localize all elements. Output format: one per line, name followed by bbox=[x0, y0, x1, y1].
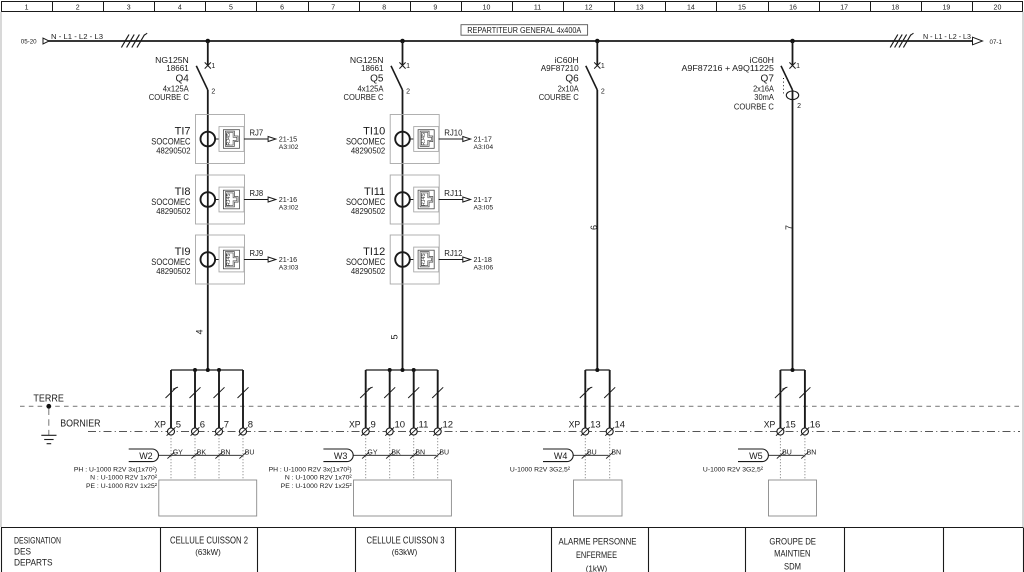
wire TI10 CT to connector bbox=[410, 138, 414, 140]
load label ALARME PERSONNE ENFERMEE bbox=[559, 537, 637, 572]
wire feeder Q5 to tie bbox=[402, 90, 404, 370]
load label CELLULE CUISSON 3 bbox=[367, 536, 445, 557]
wire drop to XP12 bbox=[432, 370, 443, 428]
cable W3 bbox=[323, 449, 436, 462]
wire number 5 bbox=[390, 334, 400, 339]
svg-text:XP: XP bbox=[569, 419, 581, 430]
wire drop to XP5 bbox=[166, 370, 179, 428]
net label N - L1 - L2 - L3 (right) bbox=[923, 34, 971, 41]
value labels Q5 bbox=[344, 55, 384, 102]
pin 1 of Q5 bbox=[406, 63, 410, 70]
svg-text:SDM: SDM bbox=[784, 561, 801, 572]
label RJ8 bbox=[250, 189, 264, 198]
svg-text:RJ9: RJ9 bbox=[250, 249, 264, 258]
svg-text:14: 14 bbox=[615, 419, 626, 430]
current transformer TI7 bbox=[196, 115, 245, 164]
svg-text:RJ45: RJ45 bbox=[421, 133, 427, 146]
svg-text:13: 13 bbox=[590, 419, 601, 430]
wire bus to Q7 pin 1 bbox=[792, 41, 794, 65]
svg-text:DEPARTS: DEPARTS bbox=[14, 557, 53, 567]
wire conductor BN below XP16 bbox=[801, 435, 816, 480]
svg-text:48290502: 48290502 bbox=[351, 206, 385, 216]
svg-text:1: 1 bbox=[25, 4, 29, 11]
svg-text:PE : U-1000 R2V 1x25²: PE : U-1000 R2V 1x25² bbox=[281, 483, 353, 490]
svg-text:1: 1 bbox=[406, 63, 410, 70]
ground bbox=[41, 404, 56, 444]
connector RJ12 (RJ45 jack) bbox=[414, 247, 439, 272]
load box W2 bbox=[159, 480, 257, 516]
wire main bus N-L1-L2-L3 bbox=[49, 40, 974, 42]
net label N - L1 - L2 - L3 (left) bbox=[51, 34, 103, 41]
svg-text:W4: W4 bbox=[554, 451, 568, 461]
wire drop to XP15 bbox=[775, 370, 788, 428]
label RJ9 bbox=[250, 249, 264, 258]
net BORNIER dash-dot line bbox=[60, 418, 1020, 431]
label XP C bbox=[569, 419, 581, 430]
svg-text:9: 9 bbox=[371, 419, 376, 430]
wire tie bar D bbox=[780, 369, 805, 371]
wire conductor BU below XP13 bbox=[582, 435, 597, 480]
svg-text:21-18: 21-18 bbox=[474, 255, 492, 264]
wire conductor BU below XP15 bbox=[777, 435, 792, 480]
svg-text:RJ45: RJ45 bbox=[226, 133, 232, 146]
wire drop to XP9 bbox=[360, 370, 373, 428]
pin 1 of Q7 bbox=[796, 63, 800, 70]
svg-text:9: 9 bbox=[433, 4, 437, 11]
terminal XP14 bbox=[605, 419, 625, 435]
wire TI11 CT to connector bbox=[410, 199, 414, 201]
value labels TI10 SOCOMEC 48290502 bbox=[346, 125, 386, 155]
svg-text:1: 1 bbox=[796, 63, 800, 70]
svg-text:18661: 18661 bbox=[166, 63, 189, 73]
node junction dots B bbox=[388, 368, 416, 372]
svg-text:48290502: 48290502 bbox=[351, 146, 385, 156]
node junction dots C bbox=[595, 368, 599, 372]
svg-text:W2: W2 bbox=[139, 451, 153, 461]
cable W2 bbox=[129, 449, 242, 462]
svg-text:RJ45: RJ45 bbox=[421, 194, 427, 207]
svg-text:11: 11 bbox=[534, 4, 541, 11]
svg-text:BU: BU bbox=[439, 449, 449, 456]
svg-text:RJ45: RJ45 bbox=[421, 254, 427, 267]
svg-text:12: 12 bbox=[443, 419, 454, 430]
svg-text:BU: BU bbox=[245, 449, 255, 456]
current transformer TI10 bbox=[390, 115, 439, 164]
terminal XP15 bbox=[776, 419, 796, 435]
connector RJ8 (RJ45 jack) bbox=[219, 187, 244, 212]
label REPARTITEUR GENERAL 4x400A bbox=[461, 25, 588, 36]
cable W4 bbox=[543, 449, 609, 462]
svg-text:COURBE C: COURBE C bbox=[344, 92, 384, 102]
breaker Q6 bbox=[586, 62, 601, 90]
terminal XP13 bbox=[581, 419, 601, 435]
svg-text:N : U-1000 R2V 1x70²: N : U-1000 R2V 1x70² bbox=[285, 475, 353, 482]
svg-text:7: 7 bbox=[331, 4, 335, 11]
svg-text:14: 14 bbox=[687, 4, 695, 11]
terminal XP9 bbox=[361, 419, 375, 435]
svg-text:RJ12: RJ12 bbox=[444, 249, 463, 258]
svg-text:CELLULE CUISSON 2: CELLULE CUISSON 2 bbox=[170, 536, 248, 547]
wire conductor BU below XP8 bbox=[239, 435, 254, 480]
svg-text:21-17: 21-17 bbox=[474, 195, 492, 204]
svg-text:4: 4 bbox=[178, 4, 182, 11]
svg-text:N - L1 - L2 - L3: N - L1 - L2 - L3 bbox=[51, 34, 103, 41]
svg-text:21-17: 21-17 bbox=[474, 134, 492, 143]
wire tie bar C bbox=[585, 369, 609, 371]
svg-text:BORNIER: BORNIER bbox=[60, 418, 100, 429]
svg-text:W5: W5 bbox=[749, 451, 763, 461]
svg-text:48290502: 48290502 bbox=[156, 266, 190, 276]
svg-text:U-1000 R2V 3G2,5²: U-1000 R2V 3G2,5² bbox=[703, 466, 764, 473]
svg-text:TI8: TI8 bbox=[175, 186, 191, 198]
wire drop to XP10 bbox=[384, 370, 395, 428]
node departure arrow 07-1 bbox=[973, 37, 1003, 46]
svg-text:A9F87216 + A9Q11225: A9F87216 + A9Q11225 bbox=[682, 63, 775, 73]
svg-text:13: 13 bbox=[636, 4, 644, 11]
svg-text:6: 6 bbox=[589, 225, 599, 230]
value label cable spec W5 bbox=[703, 466, 764, 473]
wire drop to XP16 bbox=[799, 370, 810, 428]
value labels TI8 SOCOMEC 48290502 bbox=[151, 186, 191, 216]
terminal XP5 bbox=[167, 419, 181, 435]
svg-text:U-1000 R2V 3G2,5²: U-1000 R2V 3G2,5² bbox=[510, 466, 571, 473]
svg-text:10: 10 bbox=[395, 419, 406, 430]
svg-text:7: 7 bbox=[784, 225, 794, 230]
current transformer TI11 bbox=[390, 175, 439, 224]
terminal XP6 bbox=[191, 419, 205, 435]
node arrow to 21-16 A3:I02 bbox=[268, 195, 299, 212]
wire RJ12 output bbox=[439, 259, 463, 261]
svg-text:6: 6 bbox=[280, 4, 284, 11]
current transformer TI9 bbox=[196, 235, 245, 284]
svg-text:3: 3 bbox=[127, 4, 131, 11]
svg-text:MAINTIEN: MAINTIEN bbox=[774, 549, 810, 560]
svg-text:XP: XP bbox=[764, 419, 776, 430]
svg-text:COURBE C: COURBE C bbox=[539, 92, 579, 102]
connector RJ9 (RJ45 jack) bbox=[219, 247, 244, 272]
svg-text:5: 5 bbox=[176, 419, 181, 430]
svg-text:15: 15 bbox=[785, 419, 796, 430]
svg-text:10: 10 bbox=[483, 4, 491, 11]
breaker Q5 bbox=[391, 62, 406, 90]
node arrival 05-20 arrow bbox=[21, 38, 49, 45]
value labels Q7 bbox=[682, 55, 775, 112]
svg-text:W3: W3 bbox=[334, 451, 348, 461]
svg-text:(1kW): (1kW) bbox=[586, 563, 608, 572]
node arrow to 21-15 A3:I02 bbox=[268, 134, 299, 151]
wire conductor BN below XP14 bbox=[606, 435, 621, 480]
connector RJ10 (RJ45 jack) bbox=[414, 127, 439, 152]
wire conductor GY below XP5 bbox=[167, 435, 183, 480]
svg-text:PH : U-1000 R2V 3x(1x70²): PH : U-1000 R2V 3x(1x70²) bbox=[269, 466, 352, 473]
wire TI7 CT to connector bbox=[215, 138, 219, 140]
node bus junction Q5 bbox=[400, 39, 405, 44]
wire drop to XP8 bbox=[238, 370, 249, 428]
wire tie bar A bbox=[171, 369, 243, 371]
node arrow to 21-17 A3:I05 bbox=[463, 195, 494, 212]
svg-text:XP: XP bbox=[349, 419, 361, 430]
terminal XP12 bbox=[433, 419, 453, 435]
pin 2 of Q6 bbox=[601, 89, 605, 96]
svg-text:COURBE C: COURBE C bbox=[734, 102, 774, 112]
node bus junction Q4 bbox=[206, 39, 211, 44]
value labels Q6 bbox=[539, 55, 579, 102]
wire conductor BK below XP6 bbox=[191, 435, 206, 480]
wire RJ10 output bbox=[439, 138, 463, 140]
svg-text:(63kW): (63kW) bbox=[195, 547, 221, 557]
node bus junction Q7 bbox=[790, 39, 795, 44]
current transformer TI12 bbox=[390, 235, 439, 284]
terminal XP11 bbox=[409, 419, 428, 435]
svg-text:2: 2 bbox=[601, 89, 605, 96]
wire drop to XP6 bbox=[190, 370, 201, 428]
value label cable spec W4 bbox=[510, 466, 571, 473]
node junction dots A bbox=[193, 368, 221, 372]
wire number 4 bbox=[195, 329, 205, 334]
svg-text:DESIGNATION: DESIGNATION bbox=[14, 535, 61, 545]
svg-text:RJ11: RJ11 bbox=[444, 189, 463, 198]
svg-text:TI11: TI11 bbox=[364, 186, 385, 198]
wire RJ8 output bbox=[244, 199, 268, 201]
label XP D bbox=[764, 419, 776, 430]
svg-text:1: 1 bbox=[211, 63, 215, 70]
svg-text:17: 17 bbox=[840, 4, 848, 11]
label RJ10 bbox=[444, 129, 463, 138]
svg-text:4: 4 bbox=[195, 329, 205, 334]
svg-text:12: 12 bbox=[585, 4, 593, 11]
terminal XP16 bbox=[801, 419, 821, 435]
svg-text:DES: DES bbox=[14, 546, 31, 556]
pin 2 of Q5 bbox=[406, 89, 410, 96]
node arrow to 21-17 A3:I04 bbox=[463, 134, 494, 151]
value labels TI12 SOCOMEC 48290502 bbox=[346, 246, 386, 276]
svg-text:16: 16 bbox=[810, 419, 821, 430]
svg-text:2: 2 bbox=[211, 89, 215, 96]
value labels Q4 bbox=[149, 55, 189, 102]
svg-text:RJ45: RJ45 bbox=[226, 254, 232, 267]
svg-text:21-16: 21-16 bbox=[279, 195, 297, 204]
wire RJ9 output bbox=[244, 259, 268, 261]
terminal XP8 bbox=[239, 419, 253, 435]
load label CELLULE CUISSON 2 bbox=[170, 536, 248, 557]
load label GROUPE DE MAINTIEN SDM bbox=[769, 536, 816, 572]
load box W3 bbox=[354, 480, 452, 516]
svg-text:8: 8 bbox=[382, 4, 386, 11]
wire feeder Q4 to tie bbox=[207, 90, 209, 370]
breaker Q4 bbox=[196, 62, 211, 90]
label XP B bbox=[349, 419, 361, 430]
svg-text:48290502: 48290502 bbox=[351, 266, 385, 276]
svg-text:18661: 18661 bbox=[361, 63, 384, 73]
current transformer TI8 bbox=[196, 175, 245, 224]
wire TI12 CT to connector bbox=[410, 259, 414, 261]
svg-text:11: 11 bbox=[419, 419, 429, 430]
svg-text:05-20: 05-20 bbox=[21, 38, 37, 45]
svg-text:07-1: 07-1 bbox=[990, 39, 1003, 46]
wire conductor BK below XP10 bbox=[386, 435, 401, 480]
load box W4 bbox=[574, 480, 623, 516]
svg-text:XP: XP bbox=[154, 419, 166, 430]
svg-text:REPARTITEUR GENERAL 4x400A: REPARTITEUR GENERAL 4x400A bbox=[467, 26, 582, 35]
svg-text:RJ8: RJ8 bbox=[250, 189, 264, 198]
svg-text:1: 1 bbox=[601, 63, 605, 70]
wire TI8 CT to connector bbox=[215, 199, 219, 201]
connector RJ7 (RJ45 jack) bbox=[219, 127, 244, 152]
svg-text:GROUPE DE: GROUPE DE bbox=[769, 536, 816, 547]
wire number 7 bbox=[784, 225, 794, 230]
svg-text:RJ7: RJ7 bbox=[250, 129, 264, 138]
svg-text:20: 20 bbox=[994, 4, 1002, 11]
wire bus to Q5 pin 1 bbox=[402, 41, 404, 65]
label DESIGNATION DES DEPARTS bbox=[14, 535, 61, 567]
wire TI9 CT to connector bbox=[215, 259, 219, 261]
svg-text:48290502: 48290502 bbox=[156, 146, 190, 156]
wire number 6 bbox=[589, 225, 599, 230]
label RJ11 bbox=[444, 189, 463, 198]
svg-text:TI7: TI7 bbox=[175, 125, 191, 137]
node bus junction Q6 bbox=[595, 39, 600, 44]
wire drop to XP11 bbox=[408, 370, 419, 428]
terminal XP7 bbox=[215, 419, 229, 435]
svg-text:15: 15 bbox=[738, 4, 746, 11]
wire feeder Q7 to tie bbox=[792, 90, 794, 370]
value labels TI11 SOCOMEC 48290502 bbox=[346, 186, 386, 216]
svg-text:A3:I02: A3:I02 bbox=[279, 144, 299, 151]
wire RJ11 output bbox=[439, 199, 463, 201]
wire conductor GY below XP9 bbox=[362, 435, 378, 480]
svg-text:TI9: TI9 bbox=[175, 246, 191, 258]
wire tie bar B bbox=[366, 369, 438, 371]
svg-text:2: 2 bbox=[406, 89, 410, 96]
designation table bbox=[1, 528, 1024, 572]
wire conductor BN below XP11 bbox=[410, 435, 425, 480]
wire drop to XP14 bbox=[604, 370, 615, 428]
wire conductor BU below XP12 bbox=[434, 435, 449, 480]
svg-text:N - L1 - L2 - L3: N - L1 - L2 - L3 bbox=[923, 34, 971, 41]
svg-text:COURBE C: COURBE C bbox=[149, 92, 189, 102]
svg-text:(63kW): (63kW) bbox=[392, 547, 418, 557]
svg-text:TI12: TI12 bbox=[363, 246, 385, 258]
connector RJ11 (RJ45 jack) bbox=[414, 187, 439, 212]
load box W5 bbox=[769, 480, 817, 516]
wire drop to XP7 bbox=[214, 370, 225, 428]
column ruler header bbox=[2, 2, 1023, 12]
svg-text:6: 6 bbox=[200, 419, 205, 430]
terminal XP10 bbox=[385, 419, 405, 435]
value labels TI9 SOCOMEC 48290502 bbox=[151, 246, 191, 276]
node junction dots D bbox=[791, 368, 795, 372]
svg-text:BN: BN bbox=[807, 449, 817, 456]
pin 2 of Q7 bbox=[797, 103, 801, 110]
wire drop to XP13 bbox=[580, 370, 593, 428]
svg-text:A3:I02: A3:I02 bbox=[279, 205, 299, 212]
wire conductor BN below XP7 bbox=[215, 435, 230, 480]
label XP A bbox=[154, 419, 166, 430]
svg-text:19: 19 bbox=[942, 4, 950, 11]
conductor count slashes (right) bbox=[890, 33, 913, 47]
svg-text:ENFERMEE: ENFERMEE bbox=[576, 550, 617, 561]
svg-text:48290502: 48290502 bbox=[156, 206, 190, 216]
svg-text:21-15: 21-15 bbox=[279, 134, 297, 143]
breaker Q7 bbox=[781, 62, 799, 99]
svg-text:BN: BN bbox=[611, 449, 621, 456]
value labels TI7 SOCOMEC 48290502 bbox=[151, 125, 191, 155]
label RJ12 bbox=[444, 249, 463, 258]
svg-text:5: 5 bbox=[390, 334, 400, 339]
label RJ7 bbox=[250, 129, 264, 138]
svg-text:A3:I03: A3:I03 bbox=[279, 265, 299, 272]
svg-text:7: 7 bbox=[224, 419, 229, 430]
svg-text:ALARME PERSONNE: ALARME PERSONNE bbox=[559, 537, 637, 548]
svg-text:2: 2 bbox=[797, 103, 801, 110]
svg-text:RJ10: RJ10 bbox=[444, 129, 463, 138]
svg-text:TERRE: TERRE bbox=[33, 394, 64, 405]
svg-text:18: 18 bbox=[891, 4, 899, 11]
svg-text:CELLULE CUISSON 3: CELLULE CUISSON 3 bbox=[367, 536, 445, 547]
conductor count slashes (left) bbox=[121, 33, 147, 47]
svg-text:21-16: 21-16 bbox=[279, 255, 297, 264]
svg-text:A3:I06: A3:I06 bbox=[474, 265, 494, 272]
node arrow to 21-18 A3:I06 bbox=[463, 255, 494, 272]
wire bus to Q6 pin 1 bbox=[596, 41, 598, 65]
svg-text:PH : U-1000 R2V 3x(1x70²): PH : U-1000 R2V 3x(1x70²) bbox=[74, 466, 157, 473]
pin 2 of Q4 bbox=[211, 89, 215, 96]
svg-text:RJ45: RJ45 bbox=[226, 194, 232, 207]
wire bus to Q4 pin 1 bbox=[207, 41, 209, 65]
value label cable spec W2 bbox=[74, 466, 158, 490]
svg-text:8: 8 bbox=[248, 419, 253, 430]
svg-text:A3:I04: A3:I04 bbox=[474, 144, 494, 151]
svg-text:TI10: TI10 bbox=[363, 125, 385, 137]
node arrow to 21-16 A3:I03 bbox=[268, 255, 299, 272]
cable W5 bbox=[738, 449, 804, 462]
net TERRE dashed line bbox=[20, 394, 1020, 407]
value label cable spec W3 bbox=[269, 466, 353, 490]
svg-text:16: 16 bbox=[789, 4, 797, 11]
wire RJ7 output bbox=[244, 138, 268, 140]
pin 1 of Q6 bbox=[601, 63, 605, 70]
svg-text:PE : U-1000 R2V 1x25²: PE : U-1000 R2V 1x25² bbox=[86, 483, 158, 490]
wire feeder Q6 to tie bbox=[596, 90, 598, 370]
svg-text:2: 2 bbox=[76, 4, 80, 11]
svg-text:N : U-1000 R2V 1x70²: N : U-1000 R2V 1x70² bbox=[90, 475, 158, 482]
svg-text:A9F87210: A9F87210 bbox=[541, 63, 579, 73]
svg-text:A3:I05: A3:I05 bbox=[474, 205, 494, 212]
pin 1 of Q4 bbox=[211, 63, 215, 70]
svg-text:5: 5 bbox=[229, 4, 233, 11]
